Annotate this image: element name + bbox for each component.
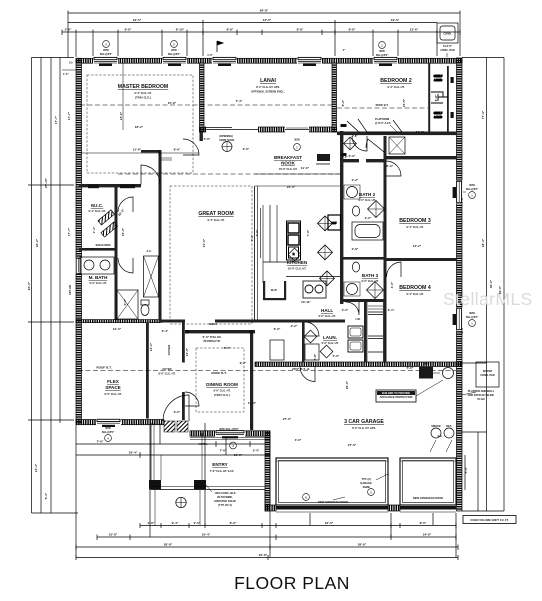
- svg-text:APRX.: APRX.: [198, 442, 208, 446]
- svg-text:LANAI: LANAI: [260, 78, 276, 84]
- svg-text:32'-2": 32'-2": [35, 238, 39, 247]
- garage right small dims: [464, 455, 466, 490]
- closet hall double line: [366, 302, 368, 362]
- svg-text:ENTRY: ENTRY: [212, 462, 227, 467]
- svg-text:6'-0": 6'-0": [274, 327, 281, 331]
- smoke det circles: [431, 428, 441, 438]
- svg-text:FLEX: FLEX: [107, 379, 120, 384]
- svg-text:APPLIANCE PROTECTION: APPLIANCE PROTECTION: [380, 395, 413, 399]
- window bedroom2 top: [373, 57, 398, 66]
- platform leader: [358, 119, 402, 132]
- svg-text:BUILDER TO PROVIDE: BUILDER TO PROVIDE: [382, 391, 410, 395]
- svg-text:21'-0": 21'-0": [202, 238, 206, 247]
- svg-text:3050: 3050: [294, 138, 300, 142]
- garage door inner lines: [276, 460, 388, 462]
- svg-text:13'-6": 13'-6": [410, 28, 419, 32]
- lanai door to nook: [349, 57, 351, 59]
- wall bath2/bath3 divider: [343, 257, 384, 260]
- wall lanai left: [200, 63, 205, 132]
- svg-text:24'-8": 24'-8": [423, 533, 432, 537]
- svg-text:SHELF: SHELF: [209, 322, 218, 326]
- svg-text:W.I.C.: W.I.C.: [91, 203, 104, 208]
- svg-text:2'-8": 2'-8": [352, 247, 359, 251]
- svg-text:4'-0": 4'-0": [342, 155, 348, 159]
- entry column right: [194, 480, 206, 490]
- vertical ext lines entry columns: [154, 490, 156, 525]
- bedroom2 roof dashed: [337, 107, 428, 109]
- svg-text:16'-0": 16'-0": [325, 521, 334, 525]
- window lanai back 1: [212, 57, 237, 66]
- wall lanai bottom: [200, 127, 337, 132]
- svg-text:GARAGE: GARAGE: [360, 481, 372, 485]
- win sym bed4 right: [466, 311, 479, 326]
- svg-text:10'-8": 10'-8": [109, 533, 118, 537]
- wall laundry left: [302, 322, 305, 362]
- wall corridor right: [159, 152, 162, 322]
- garage door rect left: [276, 458, 388, 505]
- svg-text:20'-0": 20'-0": [345, 380, 349, 389]
- wall mbath bottom: [76, 320, 162, 323]
- svg-text:9'-0" CLG. HT.: 9'-0" CLG. HT.: [213, 389, 230, 393]
- svg-text:10X0 CONC. BLK: 10X0 CONC. BLK: [214, 491, 235, 495]
- svg-text:11'-6": 11'-6": [133, 148, 142, 152]
- desk breakfast nook: [317, 154, 330, 161]
- svg-text:13'-2": 13'-2": [149, 342, 153, 351]
- garage door sill right: [400, 506, 456, 510]
- svg-text:COND. PAD: COND. PAD: [480, 373, 494, 377]
- svg-text:12'-0": 12'-0": [113, 327, 122, 331]
- svg-text:JAMB: JAMB: [362, 485, 369, 489]
- svg-text:2'-4": 2'-4": [253, 449, 260, 453]
- entry note leader: [206, 485, 212, 492]
- svg-text:5'-8": 5'-8": [313, 353, 317, 360]
- bath2 tub: [352, 222, 383, 240]
- svg-text:8'-0" CLG. HT.: 8'-0" CLG. HT.: [158, 372, 175, 376]
- door arc bedroom3: [387, 161, 402, 176]
- top dim tier 3: [62, 31, 460, 33]
- wall bedroom2 closet right: [447, 66, 449, 135]
- wall dining right: [250, 330, 253, 430]
- svg-text:10'-0" CLG. HT.: 10'-0" CLG. HT.: [288, 267, 307, 271]
- wall bedroom2 bottom: [337, 132, 457, 136]
- svg-text:8'-6": 8'-6": [174, 148, 181, 152]
- wall kitchen east / baths west: [340, 131, 343, 304]
- svg-text:4'-0": 4'-0": [342, 308, 349, 312]
- svg-text:9'-0" CLG. HT.: 9'-0" CLG. HT.: [104, 392, 121, 396]
- svg-text:77'-4": 77'-4": [481, 110, 485, 119]
- garage note box: [376, 390, 416, 402]
- svg-text:5'x3'-6": 5'x3'-6": [443, 44, 453, 48]
- svg-text:24'-0": 24'-0": [287, 185, 296, 189]
- svg-text:3'-0": 3'-0": [174, 410, 181, 414]
- svg-text:2'-8": 2'-8": [460, 326, 464, 333]
- svg-text:[TRAY CLG.]: [TRAY CLG.]: [135, 96, 151, 100]
- window master 1: [93, 57, 118, 66]
- svg-text:3050: 3050: [379, 49, 385, 53]
- kitchen island: [287, 221, 301, 260]
- svg-text:3050: 3050: [469, 311, 475, 315]
- svg-text:7'-0": 7'-0": [255, 229, 259, 236]
- wall dining front: [190, 431, 270, 436]
- svg-text:2'-2": 2'-2": [291, 324, 298, 328]
- svg-text:CUBIC VOLUME=18077 CU. FT.: CUBIC VOLUME=18077 CU. FT.: [470, 518, 509, 522]
- svg-text:2'-2": 2'-2": [352, 178, 359, 182]
- svg-text:SGL@8'0": SGL@8'0": [466, 315, 479, 319]
- top extension stubs: [75, 35, 77, 57]
- dining window sill detail: [190, 437, 270, 439]
- svg-text:7'-0": 7'-0": [306, 229, 310, 236]
- svg-text:8'-10": 8'-10": [176, 28, 185, 32]
- entry column left: [149, 480, 161, 490]
- svg-text:17'-7": 17'-7": [67, 111, 71, 120]
- svg-text:9'-4" CLG. HT.: 9'-4" CLG. HT.: [88, 209, 105, 213]
- win sym dining bottom: [219, 427, 240, 449]
- svg-text:9'-0" CLG. HT.: 9'-0" CLG. HT.: [318, 314, 335, 318]
- svg-text:64'-0": 64'-0": [27, 281, 31, 290]
- closet rod bracket: [431, 92, 448, 103]
- svg-text:15'-5": 15'-5": [402, 98, 406, 107]
- svg-text:3050: 3050: [105, 426, 111, 430]
- svg-text:FLOOR PLAN: FLOOR PLAN: [234, 573, 350, 593]
- window bedroom4 right: [453, 308, 463, 331]
- kitchen diamonds: [318, 216, 333, 231]
- svg-text:9'-4" CLG. HT.: 9'-4" CLG. HT.: [134, 91, 151, 95]
- svg-text:IM FINISH TR.: IM FINISH TR.: [203, 339, 220, 343]
- svg-text:84'-8": 84'-8": [260, 9, 269, 13]
- svg-text:BATH 2: BATH 2: [359, 192, 376, 197]
- svg-text:SGL@8'0": SGL@8'0": [100, 52, 113, 56]
- svg-text:36'-0": 36'-0": [489, 279, 493, 288]
- bottom tier 4: [76, 557, 458, 559]
- bottom tier 1: [140, 525, 456, 527]
- window flex bottom: [96, 419, 121, 427]
- svg-text:OPTIONAL SCREEN ENCL.: OPTIONAL SCREEN ENCL.: [251, 90, 285, 94]
- door arc vestibule: [183, 139, 199, 155]
- svg-text:4'-6": 4'-6": [295, 438, 302, 442]
- svg-text:A.C.: A.C.: [146, 249, 151, 253]
- bedroom2 door leaf: [347, 121, 360, 133]
- svg-text:5'-4": 5'-4": [44, 492, 48, 499]
- svg-text:5'-0" P.SL.RL: 5'-0" P.SL.RL: [203, 335, 222, 339]
- svg-text:NEW OVERHEAD DOOR: NEW OVERHEAD DOOR: [318, 500, 348, 504]
- bottom extension stubs: [75, 425, 77, 557]
- wall caps nook hall: [341, 124, 347, 127]
- laundry diamonds: [304, 330, 317, 343]
- wall bedroom3/4 divider: [387, 258, 457, 261]
- svg-text:SGL@8'0": SGL@8'0": [168, 52, 181, 56]
- svg-text:GROUTED SOLID: GROUTED SOLID: [214, 499, 236, 503]
- svg-text:4'-0": 4'-0": [204, 137, 211, 141]
- svg-text:1'-0": 1'-0": [207, 53, 213, 57]
- dashed roof line master: [80, 104, 332, 106]
- dashed roof line mid: [118, 173, 340, 175]
- right dim verticals: [462, 57, 504, 59]
- window bedroom3 right: [453, 181, 463, 204]
- svg-text:12'-2": 12'-2": [413, 244, 422, 248]
- bottom tier 3: [76, 546, 458, 548]
- wall flex/foyer divider: [146, 323, 149, 419]
- dashed tray master: [87, 75, 193, 173]
- svg-text:2'-0": 2'-0": [243, 147, 250, 151]
- water heater garage: [419, 367, 433, 379]
- svg-text:5'-0": 5'-0": [349, 154, 356, 158]
- bath2 vanity sink: [347, 187, 358, 198]
- dashed tray great room: [170, 186, 252, 324]
- svg-text:19'-5": 19'-5": [133, 18, 142, 22]
- kitchen fridge: [328, 215, 341, 230]
- svg-text:WATER: WATER: [483, 369, 492, 373]
- wall corridor left (wic/mbath east): [115, 187, 118, 320]
- svg-text:19'-6": 19'-6": [391, 18, 400, 22]
- mbath vanity: [80, 257, 114, 274]
- svg-text:5'-0": 5'-0": [407, 366, 414, 370]
- door arc bedroom2: [352, 136, 367, 151]
- svg-text:GREAT ROOM: GREAT ROOM: [198, 211, 233, 217]
- water cond pad right: [476, 362, 499, 387]
- svg-text:W/ 5/8 WIRE,: W/ 5/8 WIRE,: [217, 495, 233, 499]
- svg-text:25'-10": 25'-10": [44, 177, 48, 188]
- wall baths/bedrooms divider: [384, 136, 387, 362]
- svg-text:2'-8": 2'-8": [65, 28, 72, 32]
- svg-text:8'-8": 8'-8": [349, 28, 356, 32]
- cond pad top right: [437, 23, 458, 43]
- svg-text:13'-4": 13'-4": [34, 463, 38, 472]
- garage door sill left: [276, 506, 388, 510]
- svg-text:5'-0": 5'-0": [464, 466, 468, 473]
- svg-text:18'-4": 18'-4": [481, 238, 485, 247]
- garage door rect right: [400, 458, 456, 505]
- svg-text:4'-0": 4'-0": [390, 281, 394, 288]
- svg-text:SHELF: SHELF: [434, 111, 443, 115]
- bar sink cabinet: [303, 281, 326, 298]
- left dim verticals: [31, 58, 33, 514]
- svg-text:MASTER BEDROOM: MASTER BEDROOM: [118, 84, 168, 90]
- svg-text:9'-0" CLG. HT.: 9'-0" CLG. HT.: [361, 279, 378, 283]
- svg-text:11'-0": 11'-0": [301, 166, 310, 170]
- bath2 door leaf: [366, 139, 384, 152]
- porch outline: [151, 423, 265, 505]
- nook hall diamond closet: [344, 137, 357, 150]
- porch inner lines: [153, 423, 155, 480]
- svg-text:14'-0": 14'-0": [416, 130, 425, 134]
- wic shelves: [98, 210, 115, 225]
- svg-text:AND PATIO BY BLDR.: AND PATIO BY BLDR.: [468, 393, 495, 397]
- svg-text:ROOF B.T.: ROOF B.T.: [376, 103, 389, 107]
- wall bedroom2 closet left: [428, 63, 430, 135]
- svg-text:10'-4": 10'-4": [202, 533, 211, 537]
- svg-text:7'-0": 7'-0": [250, 234, 254, 241]
- window mbath left: [76, 258, 82, 274]
- svg-text:15'-8": 15'-8": [168, 101, 177, 105]
- svg-text:16'-4": 16'-4": [129, 451, 138, 455]
- svg-text:LIN.: LIN.: [356, 317, 361, 321]
- svg-text:CONC. PAD: CONC. PAD: [440, 48, 454, 52]
- svg-text:10'-0" CLG. HT.: 10'-0" CLG. HT.: [279, 167, 298, 171]
- svg-text:2'-8": 2'-8": [460, 196, 464, 203]
- svg-text:26'-8": 26'-8": [164, 543, 173, 547]
- svg-text:8'-2": 8'-2": [341, 99, 345, 106]
- wall great room south segments: [161, 320, 185, 323]
- svg-text:W.H.: W.H.: [423, 362, 429, 366]
- garage note leaders: [416, 373, 443, 396]
- wall lanai right: [332, 63, 337, 132]
- door arc laundry: [305, 322, 319, 336]
- mbath toilet: [141, 305, 149, 316]
- svg-text:3 CAR GARAGE: 3 CAR GARAGE: [344, 419, 384, 425]
- wall garage left: [265, 432, 270, 511]
- svg-text:8'-0": 8'-0": [224, 346, 231, 350]
- svg-text:6'-10": 6'-10": [86, 247, 95, 251]
- bed3 window leader: [463, 191, 466, 193]
- dim line master interior: [81, 152, 199, 154]
- svg-text:ROOF B.T.: ROOF B.T.: [96, 366, 111, 370]
- dashed tray dining: [196, 348, 244, 412]
- wall dining top: [185, 330, 255, 333]
- svg-text:ROOF B.T.: ROOF B.T.: [211, 371, 226, 375]
- svg-text:DINING ROOM: DINING ROOM: [206, 382, 238, 387]
- svg-text:& ROD: & ROD: [434, 115, 442, 119]
- wall garage front: [265, 505, 276, 511]
- cubic volume box: [463, 516, 516, 524]
- bottom tier entry upper: [76, 443, 270, 445]
- svg-text:(OPENING): (OPENING): [219, 134, 233, 138]
- svg-text:(TYP. OF 2): (TYP. OF 2): [218, 503, 232, 507]
- bath3 shower sym: [367, 282, 384, 299]
- nook dim leaders: [255, 173, 340, 175]
- svg-text:6'-8": 6'-8": [434, 94, 438, 101]
- svg-text:17'-7": 17'-7": [67, 227, 71, 236]
- svg-text:7'-0" CLG. HT. S.F.F.: 7'-0" CLG. HT. S.F.F.: [210, 469, 235, 473]
- platform ac box: [389, 137, 405, 154]
- door arc foyer-dining: [185, 392, 199, 406]
- svg-text:9'-4" CLG. HT.: 9'-4" CLG. HT.: [387, 85, 404, 89]
- window sym 2a: [100, 41, 113, 56]
- svg-text:COND.: COND.: [443, 32, 452, 36]
- svg-text:8'-8": 8'-8": [297, 28, 304, 32]
- svg-text:8'-6": 8'-6": [230, 521, 237, 525]
- pantry walls: [263, 281, 265, 300]
- door arc bedroom4: [387, 262, 402, 277]
- svg-text:9'-0" CLG. HT.: 9'-0" CLG. HT.: [321, 341, 338, 345]
- washer dryer: [348, 326, 363, 338]
- svg-text:R: R: [293, 252, 295, 256]
- svg-text:TYP. (2): TYP. (2): [361, 477, 370, 481]
- wall laundry right / closet: [364, 302, 367, 362]
- wall flex bottom: [76, 420, 164, 425]
- cond pad leader: [446, 53, 448, 57]
- svg-text:W.I.P.: W.I.P.: [271, 288, 278, 292]
- svg-text:SGL@8'0": SGL@8'0": [466, 187, 479, 191]
- svg-text:LAUN.: LAUN.: [323, 335, 337, 340]
- svg-text:[TRAY CLG.]: [TRAY CLG.]: [214, 393, 230, 397]
- svg-text:9'-4": 9'-4": [172, 521, 179, 525]
- svg-text:10'-6": 10'-6": [234, 453, 243, 457]
- wall exterior right: [457, 58, 463, 511]
- svg-text:2'-0": 2'-0": [148, 521, 155, 525]
- wall garage top: [255, 362, 462, 367]
- svg-text:28'-8": 28'-8": [358, 543, 367, 547]
- svg-text:13'-0": 13'-0": [263, 18, 272, 22]
- svg-text:SHELF/ROD: SHELF/ROD: [96, 243, 111, 247]
- window master 2: [162, 57, 187, 66]
- svg-text:7'-0": 7'-0": [220, 449, 227, 453]
- win sym flex bottom: [102, 426, 115, 441]
- lanai slider sym: [219, 134, 235, 152]
- svg-text:S.D.: S.D.: [437, 434, 442, 438]
- svg-text:5.5: 5.5: [69, 61, 73, 65]
- wall bedroom3 top: [384, 156, 457, 159]
- kitchen counter west: [269, 205, 271, 262]
- svg-text:9'-4" CLG. HT.: 9'-4" CLG. HT.: [406, 292, 423, 296]
- svg-text:3050: 3050: [469, 183, 475, 187]
- laundry counter: [305, 344, 319, 360]
- wall hall south / laundry north: [285, 320, 345, 323]
- svg-text:9'-4" CLG. HT. APX.: 9'-4" CLG. HT. APX.: [256, 85, 280, 89]
- svg-text:BREAKFAST: BREAKFAST: [274, 155, 302, 160]
- svg-text:SHELF: SHELF: [434, 74, 443, 78]
- fp flag: [217, 41, 223, 52]
- svg-text:BEDROOM 3: BEDROOM 3: [399, 218, 431, 224]
- svg-text:SGL@8'0": SGL@8'0": [376, 53, 389, 57]
- door arc wic: [118, 197, 133, 212]
- svg-text:7'-6": 7'-6": [97, 440, 104, 444]
- svg-text:FOYER: FOYER: [167, 344, 171, 355]
- svg-text:& ROD: & ROD: [434, 78, 442, 82]
- svg-text:12'-5": 12'-5": [185, 347, 189, 356]
- bath3 toilet: [352, 262, 359, 272]
- svg-text:2650: 2650: [103, 48, 109, 52]
- svg-text:BEDROOM 2: BEDROOM 2: [380, 78, 412, 84]
- nook desk counter: [316, 163, 330, 165]
- apron lines below garage doors: [276, 511, 388, 513]
- svg-text:SGL@8'0": SGL@8'0": [102, 430, 115, 434]
- top dim tier 2: [68, 22, 437, 24]
- window sym 2b: [168, 41, 181, 56]
- bath3 vanity sink: [347, 284, 358, 295]
- door arc bath3: [346, 302, 359, 315]
- svg-text:64'-8": 64'-8": [259, 553, 268, 557]
- wall vestibule top: [141, 150, 162, 153]
- svg-text:17'-7": 17'-7": [54, 115, 58, 124]
- svg-text:9'-2": 9'-2": [240, 361, 247, 365]
- bath2 top wall segments: [341, 159, 359, 162]
- svg-text:15'-0": 15'-0": [121, 227, 125, 236]
- svg-text:2'-0": 2'-0": [365, 216, 372, 220]
- svg-text:8'-8": 8'-8": [227, 28, 234, 32]
- dashed roof line lower: [78, 370, 456, 372]
- window dining bottom: [215, 430, 245, 438]
- svg-text:M. BATH: M. BATH: [89, 275, 108, 280]
- svg-text:FOYER: FOYER: [163, 367, 172, 371]
- window sym 1 bed2: [376, 42, 389, 57]
- svg-text:3'-0": 3'-0": [123, 298, 127, 305]
- svg-text:OPT. DR: OPT. DR: [68, 285, 72, 295]
- front door leaves: [164, 421, 175, 432]
- wall master bottom: [79, 184, 141, 187]
- bath2 shower sym: [368, 201, 385, 218]
- door arc mbath: [118, 258, 133, 273]
- svg-text:PLANTER AND WALL: PLANTER AND WALL: [468, 389, 495, 393]
- svg-text:11'-0": 11'-0": [248, 401, 257, 405]
- svg-text:3'-4": 3'-4": [162, 329, 169, 333]
- hall linen shelves: [368, 306, 383, 309]
- wall foyer/dining divider: [182, 323, 185, 363]
- svg-text:7'-4": 7'-4": [236, 99, 243, 103]
- svg-text:8'-0": 8'-0": [420, 521, 427, 525]
- wall exterior left: [76, 58, 82, 423]
- svg-text:DET.: DET.: [446, 424, 452, 428]
- lanai win sym: [294, 138, 301, 151]
